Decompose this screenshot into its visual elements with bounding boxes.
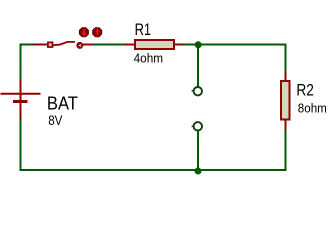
junction dot bottom node (195, 168, 202, 175)
wire battery bottom pin (red) (20, 103, 22, 119)
wire top-left corner to switch (green segment) (21, 45, 34, 80)
svg-text:8ohm: 8ohm (298, 100, 327, 115)
switch SW1 right circle terminal with contact arrow (77, 43, 82, 48)
svg-text:8V: 8V (48, 112, 63, 128)
junction dot top node (195, 41, 202, 48)
resistor R1 body (135, 40, 174, 49)
wire middle branch lower (green) (197, 131, 199, 170)
terminal upper circle (192, 87, 202, 95)
switch actuator button down-arrow (79, 28, 88, 37)
switch SW1 lever arm (53, 42, 75, 45)
svg-text:4ohm: 4ohm (134, 50, 164, 65)
switch actuator button up-arrow (93, 28, 102, 37)
wire right vertical upper (green) (285, 44, 287, 72)
terminal lower circle (192, 122, 202, 130)
battery BAT positive plate (1, 93, 41, 95)
wire R2 bottom pin (red) (285, 120, 287, 130)
switch SW1 left square terminal (48, 42, 53, 47)
wire middle branch upper (green) (197, 45, 199, 87)
svg-text:R1: R1 (135, 20, 152, 39)
wire R1 right pin (red) (175, 44, 184, 46)
wire R2 top pin (red) (285, 72, 287, 82)
wire battery top pin (red) (20, 80, 22, 101)
svg-text:R2: R2 (296, 81, 314, 100)
wire R1 left pin (red) (124, 44, 134, 46)
battery BAT negative plate (13, 100, 28, 103)
wire switch right pin (red) (83, 44, 93, 46)
resistor R2 body (281, 81, 290, 120)
wire switch to R1 (green) (93, 44, 124, 46)
wire R1 to top-right corner (green) (184, 44, 286, 46)
svg-text:BAT: BAT (47, 93, 78, 114)
wire right vertical lower (green) (198, 130, 286, 171)
wire switch left pin (red) (33, 44, 47, 46)
wire bottom left (green) (21, 119, 199, 170)
